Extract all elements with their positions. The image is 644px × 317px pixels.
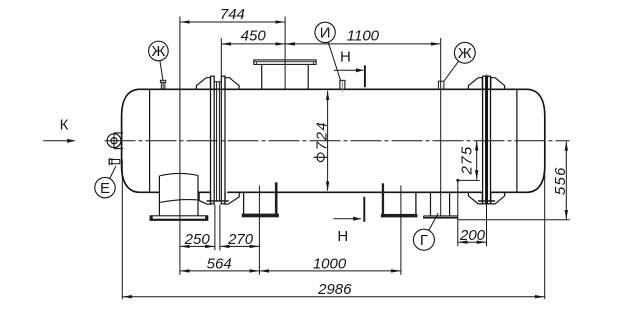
svg-text:556: 556 <box>552 166 569 195</box>
phi symbol of dimension phi724 <box>314 153 328 162</box>
svg-text:Ж: Ж <box>458 45 472 62</box>
dimension 556 <box>458 141 570 219</box>
bottom nozzle G neck <box>431 192 450 216</box>
right head tangent line <box>516 89 518 192</box>
saddle support 2 centerline extension <box>400 185 402 275</box>
left flange top hub left <box>196 78 210 90</box>
right flange top hub left <box>468 78 482 90</box>
svg-text:И: И <box>320 25 331 42</box>
dimension 450 <box>221 38 284 76</box>
svg-text:250: 250 <box>184 231 211 248</box>
saddle support 1 centerline extension <box>258 186 260 275</box>
left girth flange bottom gasket thick line <box>207 200 229 202</box>
big bottom nozzle top arc <box>159 173 198 175</box>
dimension 564 <box>180 270 259 272</box>
leader Zh2 <box>444 61 459 81</box>
left flange bottom hub right <box>225 192 239 204</box>
svg-text:270: 270 <box>227 231 254 248</box>
nozzle stub Zh2 on shell top <box>438 81 444 89</box>
right girth flange bottom gasket thick line <box>478 200 495 202</box>
svg-text:275: 275 <box>458 146 475 176</box>
right girth flange bar 2 <box>487 76 490 204</box>
dimension 270 <box>220 205 259 251</box>
E stub fitting on left head <box>109 158 120 166</box>
dimension 200 <box>458 180 487 246</box>
big top nozzle flange <box>254 60 316 65</box>
svg-text:200: 200 <box>459 227 486 244</box>
saddle support 2 <box>381 183 418 217</box>
big bottom nozzle flange <box>150 216 208 221</box>
dimension 250 <box>180 205 215 251</box>
section H arrow bottom <box>333 197 364 222</box>
right girth flange middle line <box>486 75 488 206</box>
leader G <box>429 213 438 230</box>
svg-text:564: 564 <box>207 256 232 273</box>
shell bottom line <box>150 191 517 193</box>
svg-text:2986: 2986 <box>317 281 352 298</box>
leader E <box>110 166 116 179</box>
svg-text:Е: Е <box>100 180 110 197</box>
svg-text:Ж: Ж <box>151 43 165 60</box>
svg-text:Н: Н <box>340 49 351 66</box>
big bottom nozzle inner arc <box>159 200 198 203</box>
svg-text:К: К <box>60 117 69 134</box>
right girth flange bar 1 <box>483 76 486 204</box>
left girth flange bar 1 <box>211 76 215 204</box>
centerline of vessel <box>105 140 570 142</box>
dimension 2986 <box>122 160 544 300</box>
nozzle stub I on shell top <box>340 80 345 91</box>
bottom nozzle G flange <box>424 216 458 219</box>
shell top line <box>150 88 517 90</box>
callout circle G <box>413 229 434 250</box>
leader Zh1 <box>160 61 163 81</box>
big bottom nozzle neck <box>159 176 198 216</box>
saddle support 1 <box>242 182 279 217</box>
right flange bottom hub left <box>468 192 482 204</box>
view K arrow <box>43 140 75 142</box>
left flange bottom hub left <box>199 192 210 204</box>
section H arrow top <box>334 65 365 87</box>
dimension phi724 <box>327 91 329 191</box>
left head tangent line <box>149 89 151 192</box>
callout circle Zh2 <box>454 42 475 63</box>
left girth flange gasket lines <box>214 82 221 201</box>
right flange top hub right <box>491 78 505 90</box>
leader I <box>328 42 340 80</box>
dimension 1100 <box>286 38 441 217</box>
svg-text:Н: Н <box>337 228 348 245</box>
callout circle Zh1 <box>149 41 169 61</box>
left head <box>122 89 150 192</box>
right flange bottom hub right <box>491 192 505 204</box>
svg-text:1100: 1100 <box>347 28 380 45</box>
left flange top hub right <box>225 78 239 90</box>
callout circle I <box>315 22 335 42</box>
svg-text:744: 744 <box>220 6 245 23</box>
svg-text:724: 724 <box>313 121 330 151</box>
dimension 275 <box>456 141 479 182</box>
big top nozzle neck <box>262 64 309 89</box>
dimension 1000 <box>260 270 401 272</box>
svg-text:Г: Г <box>420 232 428 249</box>
callout circle E <box>95 177 115 197</box>
svg-text:1000: 1000 <box>313 256 347 273</box>
svg-text:450: 450 <box>241 28 267 45</box>
nozzle stub Zh1 on shell top <box>160 80 165 89</box>
trunnion circle on left head <box>107 133 123 149</box>
right head <box>517 89 545 192</box>
left girth flange bar 2 <box>221 76 225 204</box>
dimension 744 <box>180 17 285 276</box>
